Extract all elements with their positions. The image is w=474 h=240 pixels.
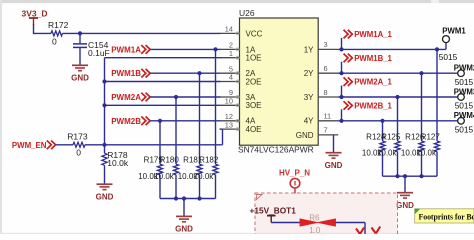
test point PWM2: [454, 64, 474, 87]
junction PWM1A drop: [213, 47, 217, 51]
wire ground bus left: [160, 198, 216, 200]
svg-text:GND: GND: [175, 225, 193, 234]
junction output stub PWM1A_1: [339, 47, 343, 51]
wire 2OE row: [105, 81, 221, 83]
svg-text:R125: R125: [381, 132, 401, 141]
diode D (partial): [356, 228, 364, 235]
wire PWM1B_1 drop to resistor: [421, 73, 423, 141]
svg-text:4OE: 4OE: [246, 125, 262, 134]
svg-text:GND: GND: [325, 161, 343, 170]
svg-text:PWM1A: PWM1A: [111, 45, 141, 54]
power port +15V_BOT1: [250, 206, 297, 223]
pin 6 (2Y): [304, 64, 338, 78]
svg-text:PWM2B: PWM2B: [111, 117, 141, 126]
svg-text:11: 11: [324, 112, 332, 121]
wire R172 to VCC pin: [63, 32, 221, 34]
svg-text:PWM1A_1: PWM1A_1: [354, 30, 392, 39]
svg-text:R182: R182: [199, 156, 219, 165]
junction PWM2A drop: [174, 95, 178, 99]
svg-text:R127: R127: [421, 132, 441, 141]
svg-text:R172: R172: [48, 20, 69, 30]
svg-text:PWM1B_1: PWM1B_1: [354, 54, 392, 63]
junction output stub PWM1B_1: [339, 71, 343, 75]
wire PWM1B drop to resistor: [199, 73, 201, 164]
svg-text:R173: R173: [67, 132, 88, 142]
svg-text:1Y: 1Y: [304, 45, 314, 54]
port PWM_EN: [12, 141, 56, 150]
power port 3V3_D: [22, 9, 48, 26]
resistor R125: [377, 132, 401, 176]
resistor R180: [154, 156, 179, 199]
capacitor C154: [73, 33, 110, 64]
wire 3V3_D vertical: [33, 24, 35, 34]
svg-text:GND: GND: [71, 74, 89, 83]
wire +15V to fuse: [271, 222, 300, 224]
op-amp U26 body: [238, 8, 318, 154]
svg-text:0: 0: [76, 147, 81, 157]
resistor R178: [102, 145, 129, 184]
svg-text:PWM1B: PWM1B: [111, 69, 141, 78]
resistor R127: [416, 132, 440, 176]
pin 4 (2OE): [220, 73, 262, 87]
svg-text:0.1uF: 0.1uF: [88, 48, 110, 58]
svg-text:7: 7: [324, 126, 328, 135]
wire 4OE jog horizontal: [220, 128, 223, 130]
svg-text:3OE: 3OE: [246, 101, 262, 110]
junction output stub PWM2B_1: [339, 119, 343, 123]
svg-text:3: 3: [324, 40, 328, 49]
blanket region (pink): [255, 193, 398, 235]
pin 7 (GND): [296, 126, 338, 140]
pin 14 (VCC): [220, 25, 263, 39]
pin 2 (1A): [220, 41, 256, 55]
wire corner down: [364, 223, 366, 235]
svg-text:GND: GND: [396, 201, 414, 210]
wire PWM1A output row: [338, 48, 446, 50]
svg-text:GND: GND: [96, 193, 114, 202]
svg-text:3V3_D: 3V3_D: [22, 9, 48, 19]
port PWM1A_1: [344, 30, 393, 39]
pin 11 (4Y): [304, 112, 338, 126]
junction bus R181: [197, 196, 201, 200]
wire PWM1A to pin: [150, 48, 220, 50]
junction 3OE: [102, 103, 106, 107]
wire stub to port PWM1B_1: [341, 62, 343, 73]
junction at C154 tap: [78, 31, 82, 35]
pin 10 (3OE): [220, 97, 262, 111]
svg-text:PWM2B_1: PWM2B_1: [354, 102, 392, 111]
wire PWM_EN to R173: [56, 144, 73, 146]
wire PWM1B output row: [338, 72, 457, 74]
wire 3OE row: [105, 104, 221, 106]
svg-text:10.0k: 10.0k: [154, 172, 175, 181]
resistor R181: [178, 156, 203, 199]
test point PWM3: [454, 87, 474, 110]
svg-text:Footprints for Bootst: Footprints for Bootst: [419, 212, 474, 221]
svg-text:5015: 5015: [439, 52, 458, 62]
resistor R173: [67, 132, 88, 158]
note Footprints for Bootstrap: [415, 209, 474, 223]
resistor R124: [362, 132, 386, 176]
svg-text:PWM_EN: PWM_EN: [12, 141, 47, 150]
junction PWM2B_1 resistor drop: [380, 119, 384, 123]
wire PWM1A drop to resistor: [215, 49, 217, 164]
wire PWM1A_1 drop to resistor: [436, 49, 438, 141]
test point PWM4: [454, 111, 474, 134]
pin 5 (2A): [220, 64, 256, 78]
junction PWM1B drop: [197, 71, 201, 75]
svg-text:5015: 5015: [455, 124, 474, 134]
wire bus to ground right: [404, 176, 406, 192]
svg-text:PWM1: PWM1: [442, 26, 466, 35]
junction bus gnd drop: [182, 196, 186, 200]
wire enable bus vertical: [104, 58, 106, 145]
pin 13 (4OE): [220, 120, 262, 134]
port HV_P_N: [279, 169, 310, 194]
junction PWM2B drop: [158, 119, 162, 123]
svg-text:U26: U26: [239, 8, 255, 18]
wire 4OE jog vertical: [222, 129, 224, 145]
svg-text:10.0k: 10.0k: [194, 172, 215, 181]
wire ground bus right: [383, 175, 438, 177]
junction bus R126: [419, 174, 423, 178]
svg-text:13: 13: [225, 120, 233, 129]
wire bus to ground: [183, 199, 185, 217]
pin 9 (3A): [220, 88, 256, 102]
pin 12 (4A): [220, 112, 256, 126]
port PWM1B_1: [344, 54, 393, 63]
svg-text:1OE: 1OE: [246, 54, 262, 63]
wire stub to port PWM2A_1: [341, 86, 343, 98]
junction PWM_EN / enable bus: [102, 143, 106, 147]
svg-text:8: 8: [324, 88, 328, 97]
port PWM1B: [111, 69, 150, 78]
svg-text:10.0k: 10.0k: [377, 149, 398, 158]
junction PWM1B_1 resistor drop: [419, 71, 423, 75]
svg-text:+15V_BOT1: +15V_BOT1: [250, 206, 297, 216]
fuse R6: [300, 213, 336, 235]
svg-text:PWM2A_1: PWM2A_1: [354, 78, 392, 87]
resistor R179: [138, 156, 163, 199]
svg-text:2OE: 2OE: [246, 77, 262, 86]
svg-text:10.0k: 10.0k: [416, 149, 437, 158]
svg-text:5015: 5015: [455, 101, 474, 111]
wire 3V3_D to R172: [34, 32, 52, 34]
wire PWM2B drop to resistor: [159, 121, 161, 164]
junction bus gnd drop right: [403, 174, 407, 178]
wire PWM2B to pin: [150, 120, 220, 122]
svg-text:4Y: 4Y: [304, 117, 314, 126]
svg-text:GND: GND: [296, 131, 314, 140]
pin 1 (1OE): [220, 49, 262, 63]
svg-text:R180: R180: [160, 156, 180, 165]
svg-text:PWM2A: PWM2A: [111, 93, 141, 102]
wire R173 to enable bus: [85, 144, 223, 146]
junction output stub PWM2A_1: [339, 95, 343, 99]
port PWM2B_1: [344, 101, 393, 110]
svg-text:14: 14: [225, 25, 233, 34]
wire PWM2B_1 drop to resistor: [382, 121, 384, 141]
wire PWM2A drop to resistor: [175, 97, 177, 164]
wire 1Y up to test point PWM1: [445, 43, 447, 50]
svg-text:10: 10: [225, 97, 233, 106]
wire PWM2A_1 drop to resistor: [397, 97, 399, 141]
ground under pulldowns: [175, 216, 193, 233]
svg-text:2Y: 2Y: [304, 69, 314, 78]
wire pin7 to ground: [333, 135, 335, 152]
ground under R178: [96, 184, 114, 201]
wire 1OE row: [105, 57, 221, 59]
junction PWM1A_1 resistor drop: [435, 47, 439, 51]
ground under right pulldowns: [396, 193, 414, 210]
junction PWM2A_1 resistor drop: [395, 95, 399, 99]
svg-text:4: 4: [229, 73, 233, 82]
junction bus R125: [395, 174, 399, 178]
wire PWM2B output row: [338, 120, 457, 122]
resistor R172: [48, 20, 69, 46]
port PWM2A_1: [344, 77, 393, 86]
svg-text:VCC: VCC: [246, 29, 263, 38]
diode D2 (partial): [372, 227, 381, 234]
svg-text:1.0: 1.0: [309, 226, 321, 234]
wire PWM1B to pin: [150, 72, 220, 74]
svg-text:3Y: 3Y: [304, 93, 314, 102]
ground under C154: [71, 65, 89, 82]
svg-text:1: 1: [229, 49, 233, 58]
resistor R182: [194, 156, 219, 199]
svg-text:HV_P_N: HV_P_N: [279, 169, 310, 178]
svg-text:6: 6: [324, 64, 328, 73]
wire fuse to corner: [336, 222, 366, 224]
svg-text:SN74LVC126APWR: SN74LVC126APWR: [238, 145, 314, 155]
pin 8 (3Y): [304, 88, 338, 102]
wire stub to port PWM2B_1: [341, 109, 343, 121]
pin 3 (1Y): [304, 40, 338, 54]
wire PWM2A to pin: [150, 96, 220, 98]
ground at pin 7: [325, 153, 343, 170]
junction 2OE: [102, 79, 106, 83]
svg-text:5015: 5015: [455, 77, 474, 87]
port PWM2B: [111, 117, 150, 126]
svg-text:10.0k: 10.0k: [107, 158, 129, 168]
junction bus R180: [174, 196, 178, 200]
wire PWM2A output row: [338, 96, 457, 98]
svg-text:0: 0: [52, 37, 57, 47]
resistor R126: [401, 132, 425, 176]
port PWM1A: [111, 45, 150, 54]
test point PWM1: [439, 26, 467, 61]
port PWM2A: [111, 93, 150, 102]
wire stub to port PWM1A_1: [341, 38, 343, 50]
